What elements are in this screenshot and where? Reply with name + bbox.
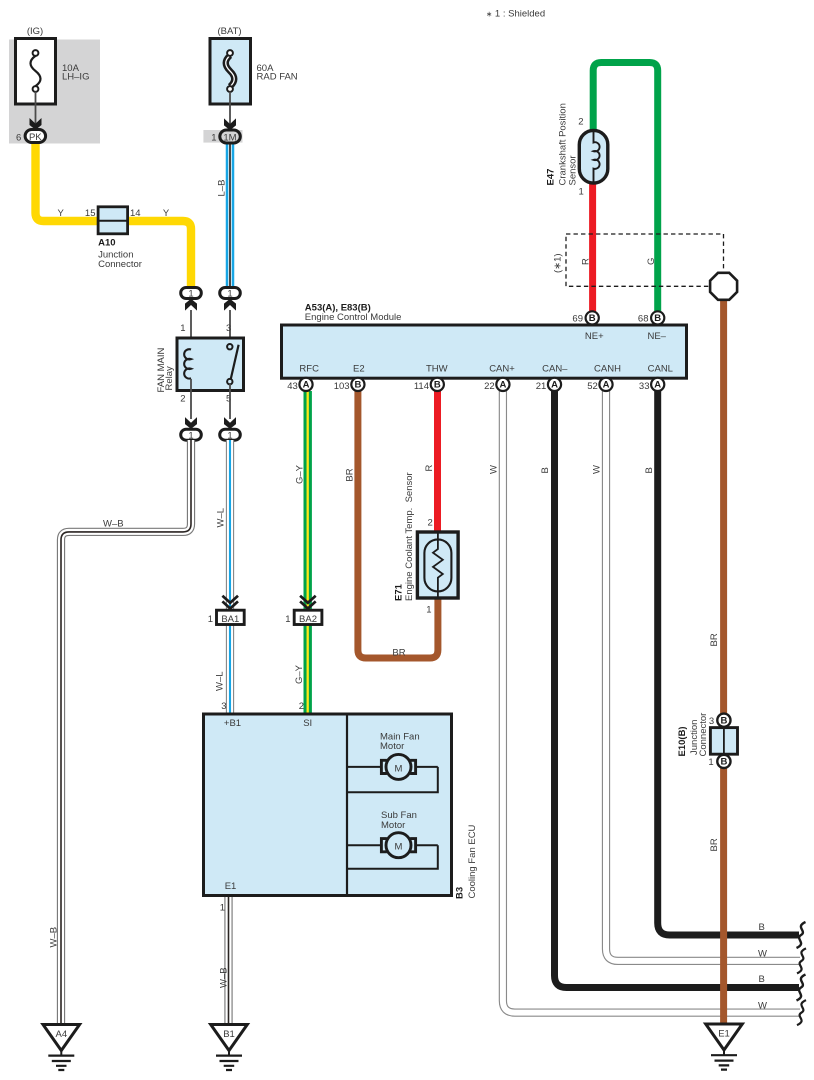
svg-text:RAD FAN: RAD FAN (257, 72, 298, 83)
wire (into relay pin 3) (229, 310, 231, 344)
relay coil (184, 349, 191, 378)
connector arrow down (below pin 5) (224, 417, 236, 429)
svg-text:NE–: NE– (647, 331, 666, 342)
svg-text:(IG): (IG) (27, 26, 43, 37)
connector arrow (into 1M) (224, 118, 236, 130)
svg-text:E2: E2 (353, 364, 365, 375)
svg-text:22: 22 (484, 381, 495, 392)
connector oval 1 (below pin 2) (181, 429, 202, 440)
svg-text:G–Y: G–Y (295, 464, 306, 484)
svg-text:LH–IG: LH–IG (62, 72, 89, 83)
svg-text:33: 33 (639, 381, 650, 392)
svg-text:B: B (720, 716, 727, 727)
svg-text:1: 1 (426, 605, 431, 616)
svg-text:E10(B): E10(B) (677, 726, 688, 756)
svg-text:2: 2 (578, 117, 583, 128)
svg-text:B: B (354, 380, 361, 391)
svg-text:1: 1 (227, 430, 232, 441)
svg-text:2: 2 (299, 701, 304, 712)
svg-text:Engine Coolant Temp. Sensor: Engine Coolant Temp. Sensor (404, 472, 415, 601)
svg-text:1: 1 (708, 757, 713, 768)
svg-text:A: A (303, 380, 310, 391)
connector arrow up (relay pin 3) (224, 299, 236, 311)
svg-text:BR: BR (345, 468, 356, 481)
svg-text:SI: SI (303, 718, 312, 729)
wire Y (yellow, PK to A10 to relay pin1 connector) (36, 141, 192, 288)
svg-text:1: 1 (180, 323, 185, 334)
svg-text:1: 1 (579, 187, 584, 198)
wire (fuse IG output) (35, 92, 37, 125)
gray strip behind 1M connector (203, 130, 242, 143)
break squiggle (CAN+) (797, 1000, 806, 1025)
svg-text:1: 1 (211, 132, 216, 143)
svg-text:A4: A4 (55, 1029, 67, 1040)
svg-text:E1: E1 (718, 1028, 730, 1039)
svg-text:G–Y: G–Y (294, 664, 305, 684)
svg-text:B: B (434, 380, 441, 391)
svg-text:M: M (395, 763, 403, 774)
svg-text:THW: THW (426, 364, 448, 375)
svg-text:CAN+: CAN+ (489, 364, 515, 375)
svg-text:A10: A10 (98, 237, 115, 248)
svg-text:14: 14 (130, 208, 141, 219)
svg-text:E1: E1 (225, 881, 237, 892)
wire B CAN- (21 to right edge) (555, 391, 800, 988)
connector pair oval 1 (relay pin 3) (220, 288, 241, 299)
shield dashed box (*1) (566, 234, 724, 286)
wire G (E47 pin2 to NE- 68) (593, 63, 658, 314)
svg-text:CANH: CANH (594, 364, 621, 375)
svg-text:W: W (758, 949, 767, 960)
svg-text:W: W (758, 1001, 767, 1012)
svg-text:NE+: NE+ (585, 331, 604, 342)
svg-text:1: 1 (188, 289, 193, 300)
svg-text:B: B (720, 757, 727, 768)
connector arrow (into 6 PK) (30, 118, 42, 130)
break squiggle (CANH) (797, 948, 806, 973)
wire B CANL (33 to right edge) (658, 391, 799, 935)
connector pair oval 1 (relay pin 1) (181, 288, 202, 299)
svg-text:1M: 1M (223, 132, 236, 143)
junction connector A10 (98, 207, 128, 234)
ECM box (282, 325, 687, 378)
svg-text:PK: PK (29, 132, 42, 143)
svg-text:W–B: W–B (103, 519, 124, 530)
svg-text:B: B (654, 313, 661, 324)
svg-text:E47: E47 (545, 169, 556, 186)
svg-text:Engine Control Module: Engine Control Module (305, 312, 402, 323)
svg-text:Motor: Motor (381, 820, 405, 831)
svg-text:B: B (589, 313, 596, 324)
svg-text:A: A (603, 380, 610, 391)
svg-text:21: 21 (536, 381, 547, 392)
svg-text:BR: BR (392, 648, 405, 659)
svg-text:W–B: W–B (49, 927, 60, 948)
svg-text:B: B (540, 467, 551, 473)
wire R (THW to E71 pin 2) (434, 391, 441, 534)
svg-text:1: 1 (188, 430, 193, 441)
svg-text:BR: BR (709, 838, 720, 851)
svg-text:Connector: Connector (698, 713, 709, 757)
svg-text:BA2: BA2 (299, 614, 317, 625)
svg-text:W–L: W–L (216, 508, 227, 528)
svg-text:W: W (592, 465, 603, 474)
wire W CAN+ (22 to right edge) (503, 391, 800, 1013)
svg-text:CAN–: CAN– (542, 364, 568, 375)
connector BA1 (217, 610, 245, 624)
svg-text:RFC: RFC (299, 364, 319, 375)
svg-text:A: A (654, 380, 661, 391)
svg-text:15: 15 (85, 208, 96, 219)
svg-text:L–B: L–B (217, 180, 228, 197)
connector BA2 (294, 610, 322, 624)
wire BR (E2 to E71 pin 1) (358, 391, 438, 658)
svg-text:3: 3 (709, 716, 714, 727)
svg-text:(BAT): (BAT) (217, 26, 241, 37)
svg-text:B3: B3 (455, 887, 466, 899)
svg-text:Y: Y (58, 208, 65, 219)
connector arrow up (relay pin 1) (185, 299, 197, 311)
ground A4 (43, 1025, 80, 1051)
svg-text:+B1: +B1 (224, 718, 241, 729)
svg-text:B1: B1 (223, 1029, 235, 1040)
svg-text:B: B (759, 974, 765, 985)
wire W CANH (52 to right edge) (606, 391, 800, 961)
ground B1 (211, 1025, 248, 1051)
svg-text:Sensor: Sensor (567, 155, 578, 185)
Cooling Fan ECU B3 box (204, 714, 452, 896)
wire (relay pin 2 out) (190, 379, 192, 419)
svg-text:A: A (551, 380, 558, 391)
svg-text:M: M (395, 842, 403, 853)
wire L-B (1M to relay pin3 connector) (226, 142, 235, 288)
wire W-B (ECU E1 to ground B1) (224, 897, 232, 1024)
svg-text:69: 69 (572, 313, 583, 324)
svg-text:∗ 1 : Shielded: ∗ 1 : Shielded (486, 9, 545, 20)
svg-text:W–L: W–L (215, 671, 226, 691)
break squiggle (CANL) (797, 922, 806, 948)
junction connector E10(B) (717, 714, 730, 727)
svg-text:R: R (581, 258, 592, 265)
svg-text:68: 68 (638, 313, 649, 324)
svg-text:B: B (644, 467, 655, 473)
svg-text:Y: Y (163, 208, 170, 219)
svg-text:BA1: BA1 (221, 614, 239, 625)
svg-text:Motor: Motor (380, 741, 404, 752)
svg-text:G: G (646, 258, 657, 265)
svg-text:Relay: Relay (164, 366, 175, 391)
relay FAN MAIN (177, 338, 244, 391)
svg-text:43: 43 (287, 381, 298, 392)
svg-text:B: B (759, 922, 765, 933)
svg-text:W: W (489, 465, 500, 474)
ground E1 (706, 1024, 743, 1050)
svg-text:W–B: W–B (218, 967, 229, 988)
svg-text:Connector: Connector (98, 259, 142, 270)
svg-text:3: 3 (226, 323, 231, 334)
svg-text:114: 114 (414, 381, 429, 392)
svg-text:2: 2 (180, 394, 185, 405)
wire (fuse BAT output) (229, 92, 231, 125)
svg-text:103: 103 (334, 381, 350, 392)
svg-text:E71: E71 (394, 583, 405, 601)
shield octagon (710, 273, 737, 300)
gray background panel (IG fuse area) (9, 40, 100, 144)
svg-text:(∗1): (∗1) (553, 253, 564, 273)
svg-text:2: 2 (428, 518, 433, 529)
svg-text:3: 3 (221, 701, 226, 712)
svg-text:1: 1 (227, 289, 232, 300)
wire W-L (relay pin5 to BA1 to ECU +B1) (226, 440, 234, 714)
connector chevrons (above BA1) (222, 596, 238, 609)
wire W-B (relay pin2 to ground A4) (61, 440, 191, 1024)
svg-text:BR: BR (709, 633, 720, 646)
svg-text:52: 52 (587, 381, 598, 392)
svg-text:6: 6 (16, 132, 21, 143)
wire R (E47 pin1 to NE+ 69) (589, 181, 596, 313)
connector arrow down (below pin 2) (185, 417, 197, 429)
break squiggle (CAN-) (797, 975, 806, 1001)
svg-text:CANL: CANL (648, 364, 673, 375)
wire (relay pin 5 out) (229, 384, 231, 419)
svg-text:1: 1 (208, 614, 213, 625)
wire G-Y (RFC to BA2 to ECU SI) (304, 391, 312, 714)
svg-text:A: A (499, 380, 506, 391)
svg-text:1: 1 (285, 614, 290, 625)
svg-text:1: 1 (220, 903, 225, 914)
wire BR (shield to E10 to ground E1) (720, 298, 727, 1024)
wire (into relay pin 1) (190, 310, 192, 350)
relay switch (230, 345, 238, 382)
svg-text:Cooling Fan ECU: Cooling Fan ECU (467, 824, 478, 898)
svg-text:R: R (424, 465, 435, 472)
connector oval 1 (below pin 5) (220, 429, 241, 440)
connector chevrons (above BA2) (300, 596, 316, 609)
